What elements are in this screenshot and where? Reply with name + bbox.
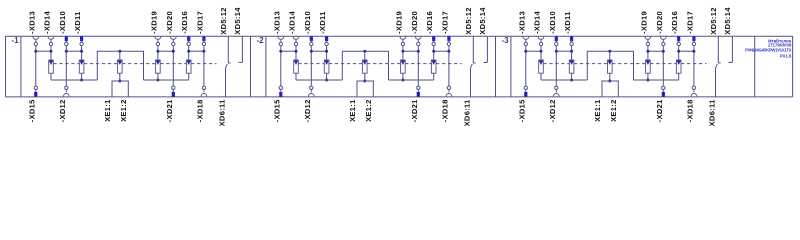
top frame rail	[6, 35, 793, 37]
connector pin -XD14 (module 1)	[43, 10, 54, 45]
lower bus right (module 2)	[389, 79, 434, 81]
lower bus right (module 3)	[634, 79, 679, 81]
wire XD5:14 fixed contact (module 1)	[239, 36, 243, 62]
svg-text:XD5:12: XD5:12	[464, 7, 473, 34]
title block text	[745, 38, 792, 58]
wire contact K1 to lower bus (module 1)	[50, 73, 52, 80]
wire contact K2 to lower bus (module 1)	[80, 73, 83, 81]
lower bus left (module 3)	[541, 79, 587, 81]
svg-text:XE1:2: XE1:2	[119, 99, 128, 122]
contact K5 (module 2)	[431, 60, 436, 73]
svg-text:PVNLMG4SKPW1V1X1TX: PVNLMG4SKPW1V1X1TX	[745, 48, 792, 53]
bus XD16-XD17 (module 3)	[677, 50, 695, 53]
connector pin -XD10 (module 2)	[303, 11, 313, 46]
contact K4 (module 1)	[156, 60, 161, 73]
svg-text:-XD13: -XD13	[272, 11, 281, 34]
connector pin -XD17 (module 1)	[195, 11, 205, 46]
wire XD10 to XD12 (module 3)	[555, 46, 557, 86]
svg-text:-XD16: -XD16	[425, 11, 434, 34]
bus XD13-XD14 (module 1)	[34, 50, 52, 53]
lower bus left (module 2)	[296, 79, 342, 81]
module -3 divider	[510, 36, 512, 97]
svg-text:-1: -1	[12, 36, 20, 45]
wire XD19 to contact (module 1)	[157, 46, 159, 60]
bridge wire to middle contact (module 1)	[97, 50, 143, 80]
svg-text:-XD11: -XD11	[563, 11, 572, 34]
wire contact K4 to lower bus (module 2)	[401, 73, 404, 81]
connector pin -XD21 (module 3)	[655, 86, 665, 122]
contact K4 (module 2)	[401, 60, 406, 73]
contact K2 (module 3)	[569, 60, 574, 73]
wire XD5:12 fixed contact (module 3)	[718, 36, 720, 63]
connector pin -XD16 (module 3)	[670, 11, 680, 46]
svg-text:-XD14: -XD14	[288, 10, 297, 33]
bridge wire to middle contact (module 2)	[342, 50, 388, 80]
svg-text:-3: -3	[502, 36, 510, 45]
wire contact K2 to lower bus (module 2)	[325, 73, 328, 81]
svg-text:-XD21: -XD21	[655, 99, 664, 122]
svg-text:-XD17: -XD17	[685, 11, 694, 34]
svg-text:-XD13: -XD13	[27, 11, 36, 34]
wire XD16 to contact (module 3)	[678, 46, 680, 60]
connector pin -XD11 (module 2)	[318, 11, 328, 46]
connector pin -XD20 (module 3)	[655, 11, 666, 46]
contact K1 (module 3)	[539, 60, 544, 73]
connector pin -XD16 (module 1)	[180, 11, 190, 46]
contact K1 (module 2)	[294, 60, 299, 73]
connector pin -XD15 (module 2)	[272, 86, 282, 122]
module -2 divider	[265, 36, 267, 97]
wire XD10 to XD12 (module 2)	[310, 46, 312, 86]
connector pin -XD17 (module 3)	[685, 11, 695, 46]
svg-text:-XD20: -XD20	[165, 11, 174, 34]
bus XD19-XD20 (module 3)	[646, 50, 664, 53]
wire XD5:14 fixed contact (module 3)	[729, 36, 733, 62]
svg-text:-XD10: -XD10	[303, 11, 312, 34]
connector pin -XD19 (module 3)	[639, 11, 650, 46]
connector pin -XD15 (module 1)	[27, 86, 37, 122]
contact K2 (module 1)	[79, 60, 84, 73]
wire XD5:14 fixed contact (module 2)	[484, 36, 488, 62]
connector pin -XD11 (module 3)	[563, 11, 573, 46]
jumper XE1 (module 3)	[602, 81, 618, 97]
svg-text:-XD19: -XD19	[394, 11, 403, 34]
wire XD13 to XD15 (module 2)	[280, 46, 282, 86]
bridge wire to middle contact (module 3)	[587, 50, 633, 80]
module -1 divider	[20, 36, 22, 97]
wire contact K1 to lower bus (module 3)	[540, 73, 542, 80]
connector pin -XD20 (module 2)	[410, 11, 421, 46]
connector pin -XD16 (module 2)	[425, 11, 435, 46]
svg-text:-2: -2	[257, 36, 265, 45]
wire XD19 to contact (module 3)	[647, 46, 649, 60]
wire contact K3 to box XE1 (module 3)	[608, 73, 611, 82]
bus XD13-XD14 (module 2)	[279, 50, 297, 53]
connector pin -XD12 (module 3)	[548, 86, 559, 122]
bottom frame rail	[6, 96, 793, 98]
title block right border	[792, 36, 794, 97]
contact K1 (module 1)	[49, 60, 54, 73]
svg-text:-XD15: -XD15	[27, 99, 36, 122]
wire XD16 to contact (module 1)	[188, 46, 190, 60]
contact K3 (module 3)	[608, 60, 613, 73]
right end border	[754, 36, 756, 97]
wire contact K3 to box XE1 (module 2)	[363, 73, 366, 82]
bus XD13-XD14 (module 3)	[524, 50, 542, 53]
connector pin -XD10 (module 1)	[58, 11, 68, 46]
switch blade (module 2)	[471, 64, 473, 68]
svg-text:-XD16: -XD16	[670, 11, 679, 34]
svg-text:-XD11: -XD11	[318, 11, 327, 34]
connector pin -XD12 (module 2)	[303, 86, 314, 122]
svg-text:XD6:11: XD6:11	[708, 99, 717, 127]
svg-text:-XD21: -XD21	[165, 99, 174, 122]
bus XD10-XD11 (module 3)	[555, 50, 573, 53]
connector pin -XD10 (module 3)	[548, 11, 558, 46]
wire XD10 to XD12 (module 1)	[65, 46, 67, 86]
wire XD13 to XD15 (module 1)	[35, 46, 37, 86]
svg-text:-XD18: -XD18	[195, 99, 204, 122]
svg-text:-XD21: -XD21	[410, 99, 419, 122]
svg-text:-XD12: -XD12	[58, 99, 67, 122]
wire XD14 to contact (module 3)	[540, 46, 542, 60]
bus XD10-XD11 (module 2)	[310, 50, 328, 53]
wire bridge to middle contact (module 3)	[609, 51, 611, 60]
wire XD16 to contact (module 2)	[433, 46, 435, 60]
svg-text:XD5:14: XD5:14	[478, 7, 487, 35]
wire XD6:11 common (module 1)	[225, 68, 227, 97]
wire contact K2 to lower bus (module 3)	[570, 73, 573, 81]
svg-text:-XD14: -XD14	[533, 10, 542, 33]
svg-text:PX1.6: PX1.6	[780, 54, 792, 59]
module -2 left border	[250, 36, 252, 97]
wire XD20 to XD21 (module 1)	[172, 46, 174, 86]
connector pin -XD18 (module 2)	[440, 86, 451, 122]
wire XD11 to contact (module 3)	[571, 46, 573, 60]
bus XD19-XD20 (module 1)	[156, 50, 174, 53]
svg-text:XE1:2: XE1:2	[609, 99, 618, 122]
svg-text:XE1:1: XE1:1	[593, 99, 602, 122]
module -3 left border	[495, 36, 497, 97]
connector pin -XD12 (module 1)	[58, 86, 69, 122]
wire contact K4 to lower bus (module 1)	[156, 73, 159, 81]
connector pin -XD13 (module 2)	[272, 11, 283, 46]
svg-text:XD5:12: XD5:12	[709, 7, 718, 34]
wire XD5:12 fixed contact (module 2)	[473, 36, 475, 63]
bus XD16-XD17 (module 1)	[187, 50, 205, 53]
svg-text:-XD15: -XD15	[272, 99, 281, 122]
connector pin -XD14 (module 3)	[533, 10, 544, 45]
connector pin -XD13 (module 3)	[517, 11, 528, 46]
wire contact K5 to lower bus (module 3)	[678, 73, 680, 80]
wire XD13 to XD15 (module 3)	[525, 46, 527, 86]
wire contact K5 to lower bus (module 2)	[433, 73, 435, 80]
connector pin -XD13 (module 1)	[27, 11, 38, 46]
lower bus left (module 1)	[51, 79, 97, 81]
wire XD6:11 common (module 2)	[470, 68, 472, 97]
connector pin -XD17 (module 2)	[440, 11, 450, 46]
svg-text:-XD10: -XD10	[548, 11, 557, 34]
mechanical link (dashed) (module 2)	[298, 63, 461, 65]
wire XD6:11 common (module 3)	[715, 68, 717, 97]
connector pin -XD20 (module 1)	[165, 11, 176, 46]
svg-text:XE1:2: XE1:2	[364, 99, 373, 122]
jumper XE1 (module 2)	[357, 81, 373, 97]
svg-text:-XD18: -XD18	[685, 99, 694, 122]
lower bus right (module 1)	[144, 79, 189, 81]
wire XD17 to XD18 (module 3)	[693, 46, 695, 86]
wire XD20 to XD21 (module 3)	[662, 46, 664, 86]
svg-text:-XD14: -XD14	[43, 10, 52, 33]
wire XD11 to contact (module 1)	[81, 46, 83, 60]
contact K4 (module 3)	[646, 60, 651, 73]
svg-text:-XD15: -XD15	[517, 99, 526, 122]
svg-text:XE1:1: XE1:1	[348, 99, 357, 122]
wire XD20 to XD21 (module 2)	[417, 46, 419, 86]
svg-text:-XD12: -XD12	[548, 99, 557, 122]
connector pin -XD11 (module 1)	[73, 11, 83, 46]
mechanical link (dashed) (module 3)	[543, 63, 706, 65]
svg-text:-XD16: -XD16	[180, 11, 189, 34]
connector pin -XD18 (module 3)	[685, 86, 696, 122]
svg-text:-XD13: -XD13	[517, 11, 526, 34]
svg-text:XD5:14: XD5:14	[723, 7, 732, 35]
wire bridge to middle contact (module 2)	[364, 51, 366, 60]
contact K2 (module 2)	[324, 60, 329, 73]
svg-text:-XD18: -XD18	[440, 99, 449, 122]
svg-text:-XD20: -XD20	[655, 11, 664, 34]
wire XD14 to contact (module 1)	[50, 46, 52, 60]
wire XD11 to contact (module 2)	[326, 46, 328, 60]
wire XD17 to XD18 (module 1)	[203, 46, 205, 86]
mechanical link (dashed) (module 1)	[53, 63, 216, 65]
connector pin -XD21 (module 2)	[410, 86, 420, 122]
wire contact K4 to lower bus (module 3)	[646, 73, 649, 81]
contact K5 (module 1)	[186, 60, 191, 73]
contact K5 (module 3)	[676, 60, 681, 73]
svg-text:-XD12: -XD12	[303, 99, 312, 122]
svg-text:-XD20: -XD20	[410, 11, 419, 34]
connector pin -XD14 (module 2)	[288, 10, 299, 45]
svg-text:-XD19: -XD19	[149, 11, 158, 34]
connector pin -XD15 (module 3)	[517, 86, 527, 122]
bus XD16-XD17 (module 2)	[432, 50, 450, 53]
wire XD14 to contact (module 2)	[295, 46, 297, 60]
contact K3 (module 2)	[363, 60, 368, 73]
wire XD5:12 fixed contact (module 1)	[228, 36, 230, 63]
svg-text:-XD17: -XD17	[195, 11, 204, 34]
contact K3 (module 1)	[118, 60, 123, 73]
wire contact K5 to lower bus (module 1)	[188, 73, 190, 80]
svg-text:XE1:1: XE1:1	[103, 99, 112, 122]
connector pin -XD19 (module 1)	[149, 11, 160, 46]
wire bridge to middle contact (module 1)	[119, 51, 121, 60]
svg-text:-XD11: -XD11	[73, 11, 82, 34]
connector pin -XD21 (module 1)	[165, 86, 175, 122]
bus XD10-XD11 (module 1)	[65, 50, 83, 53]
wire contact K3 to box XE1 (module 1)	[118, 73, 121, 82]
svg-text:XD5:14: XD5:14	[233, 7, 242, 35]
connector pin -XD18 (module 1)	[195, 86, 206, 122]
switch blade (module 3)	[716, 64, 718, 68]
svg-text:XD5:12: XD5:12	[219, 7, 228, 34]
jumper XE1 (module 1)	[112, 81, 128, 97]
svg-text:-XD19: -XD19	[639, 11, 648, 34]
switch blade (module 1)	[226, 64, 228, 68]
svg-text:XD6:11: XD6:11	[463, 99, 472, 127]
svg-text:-XD17: -XD17	[440, 11, 449, 34]
module -1 left border	[5, 36, 7, 97]
connector pin -XD19 (module 2)	[394, 11, 405, 46]
bus XD19-XD20 (module 2)	[401, 50, 419, 53]
wire contact K1 to lower bus (module 2)	[295, 73, 297, 80]
wire XD17 to XD18 (module 2)	[448, 46, 450, 86]
wire XD19 to contact (module 2)	[402, 46, 404, 60]
svg-text:-XD10: -XD10	[58, 11, 67, 34]
svg-text:XD6:11: XD6:11	[218, 99, 227, 127]
